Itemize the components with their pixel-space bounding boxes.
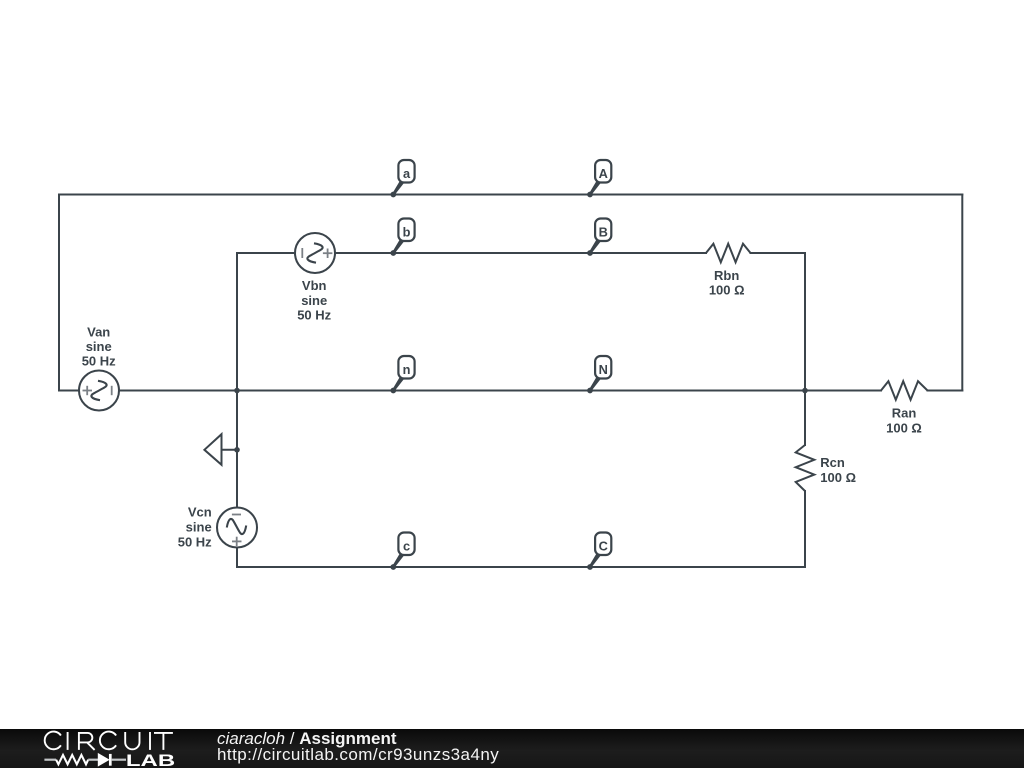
svg-text:Vbn: Vbn <box>302 278 327 293</box>
junction dot at b-branch / n-row <box>234 388 240 394</box>
svg-text:b: b <box>403 224 411 239</box>
svg-text:B: B <box>599 224 608 239</box>
svg-text:c: c <box>403 538 410 553</box>
resistor Rcn <box>796 445 815 491</box>
label Rcn <box>820 455 856 485</box>
label Ran <box>886 406 922 436</box>
svg-text:Vcn: Vcn <box>188 505 212 520</box>
svg-text:sine: sine <box>301 293 327 308</box>
wire right branch lower vertical above Rcn <box>804 391 806 446</box>
svg-text:n: n <box>403 362 411 377</box>
node A <box>587 160 611 197</box>
wire Van left stub <box>59 390 79 392</box>
svg-text:sine: sine <box>186 520 212 535</box>
node n <box>390 356 414 393</box>
svg-text:100 Ω: 100 Ω <box>709 283 745 298</box>
wire b-row left of Vbn <box>237 252 295 254</box>
voltage source Vbn <box>295 233 335 273</box>
label Vcn <box>178 505 212 550</box>
node B <box>587 219 611 256</box>
node N <box>587 356 611 393</box>
wire c-branch vertical upper <box>236 391 238 508</box>
wire ground stub <box>222 449 238 451</box>
CircuitLab logo resistor-diode glyph <box>44 754 126 766</box>
node C <box>587 533 611 570</box>
footer bar <box>0 729 1024 768</box>
footer title text <box>217 729 397 749</box>
wire n-row right of Ran <box>928 390 963 392</box>
wire top a-row <box>59 194 962 196</box>
svg-text:Ran: Ran <box>892 406 917 421</box>
svg-text:LAB: LAB <box>126 751 175 770</box>
resistor Rbn <box>706 244 751 263</box>
node b <box>390 219 414 256</box>
node c <box>390 533 414 570</box>
junction dot at ground <box>234 447 240 453</box>
wire right branch upper vertical <box>804 253 806 391</box>
svg-text:A: A <box>599 166 608 181</box>
wire b-branch vertical <box>236 253 238 391</box>
label Vbn <box>297 278 331 323</box>
wire right branch lower vertical below Rcn <box>804 491 806 567</box>
wire b-row Vbn to Rbn <box>335 252 706 254</box>
wire b-row right of Rbn <box>751 252 806 254</box>
voltage source Van <box>79 371 119 411</box>
svg-text:50 Hz: 50 Hz <box>178 535 212 550</box>
voltage source Vcn <box>217 508 257 548</box>
wire right vertical <box>961 195 963 391</box>
resistor Ran <box>881 381 928 400</box>
svg-text:Rcn: Rcn <box>820 455 845 470</box>
node a <box>390 160 414 197</box>
svg-text:Rbn: Rbn <box>714 268 739 283</box>
svg-text:sine: sine <box>86 339 112 354</box>
svg-text:C: C <box>599 538 608 553</box>
wire left vertical <box>58 195 60 391</box>
svg-text:50 Hz: 50 Hz <box>297 308 331 323</box>
wire c-branch vertical lower <box>236 548 238 568</box>
footer url text <box>217 745 499 765</box>
svg-text:N: N <box>599 362 608 377</box>
svg-text:100 Ω: 100 Ω <box>886 420 922 435</box>
svg-text:a: a <box>403 166 411 181</box>
CircuitLab logo CIRCUIT text <box>45 732 173 750</box>
label Van <box>82 325 116 369</box>
wire n-row <box>119 390 881 392</box>
svg-text:Van: Van <box>87 325 110 340</box>
svg-text:100 Ω: 100 Ω <box>820 470 856 485</box>
ground <box>204 434 221 465</box>
wire c-row <box>237 566 805 568</box>
svg-text:50 Hz: 50 Hz <box>82 354 116 369</box>
junction dot at right branch / n-row <box>802 388 808 394</box>
label Rbn <box>709 268 745 298</box>
